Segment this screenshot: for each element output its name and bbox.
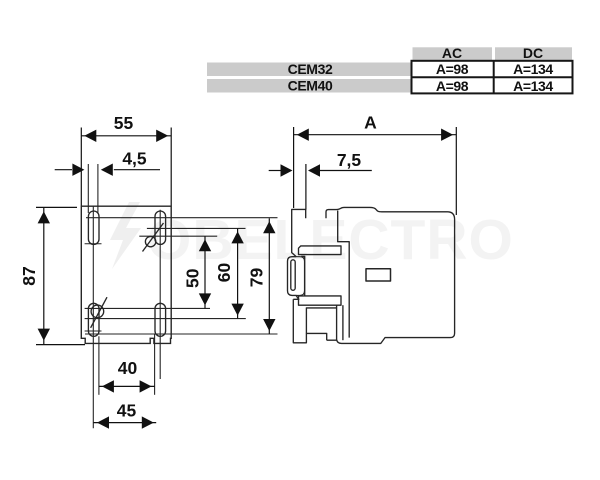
svg-text:60: 60: [214, 263, 234, 283]
side mounting strip foot: [293, 299, 326, 343]
svg-text:DC: DC: [523, 45, 543, 61]
svg-text:A=98: A=98: [436, 78, 469, 94]
side front block edge: [338, 211, 350, 338]
svg-text:A=134: A=134: [513, 61, 553, 77]
table row band CEM40: [207, 79, 412, 93]
side bottom lug: [299, 296, 342, 305]
dimension 55: [81, 128, 171, 206]
side web between lugs left: [301, 256, 305, 296]
svg-text:CEM40: CEM40: [288, 77, 333, 93]
svg-text:A: A: [364, 113, 377, 133]
keyhole slash bottom-left: [91, 297, 107, 328]
centerline through left slots / 45-dim extension: [92, 207, 94, 429]
dimension 4,5: [55, 164, 160, 176]
slot top-right: [155, 211, 166, 244]
keyhole circle top-right: [145, 236, 155, 246]
slot top-left: [88, 211, 99, 244]
svg-text:79: 79: [247, 268, 267, 288]
dimension 40: [99, 380, 155, 392]
dimension 50: [199, 236, 211, 308]
svg-text:AC: AC: [442, 45, 462, 61]
dimension A: [294, 127, 457, 215]
slot top-left bottom tangent bar: [85, 243, 102, 245]
table header cell AC: [413, 47, 493, 60]
table border grid: [412, 61, 573, 94]
label window: [366, 269, 391, 281]
plate inner bottom edge / 79 bottom extension line: [85, 333, 278, 335]
dimension 45: [94, 416, 157, 428]
extension line 79 top: [86, 217, 278, 219]
side verticals below bottom lug: [336, 305, 338, 340]
keyhole circle bottom-left: [91, 305, 104, 318]
extension line 40 left: [98, 336, 100, 395]
mounting plate outline: [81, 206, 171, 343]
slot bottom-left tangent bar: [85, 330, 102, 332]
table header cell DC: [495, 47, 572, 60]
side mounting strip top: [292, 209, 306, 256]
extension line 40/45 right: [154, 334, 156, 395]
svg-text:40: 40: [118, 358, 138, 378]
svg-text:87: 87: [19, 266, 39, 285]
dimension 7,5: [269, 164, 372, 210]
svg-text:7,5: 7,5: [337, 150, 362, 170]
side top lug: [299, 246, 342, 255]
svg-text:45: 45: [117, 401, 137, 421]
svg-text:A=134: A=134: [513, 78, 553, 94]
svg-text:4,5: 4,5: [122, 148, 147, 168]
slot bottom-left: [88, 303, 99, 336]
extension line 60 top: [147, 227, 246, 229]
extension line 50 top: [139, 235, 217, 237]
dimension 87: [36, 207, 85, 344]
dimension 79: [263, 218, 275, 334]
side body outline: [326, 207, 455, 343]
table row band CEM32: [207, 63, 412, 77]
extension line 50 bottom: [85, 307, 210, 309]
extension line 4,5 right: [97, 164, 99, 213]
extension line 60 bottom: [85, 318, 246, 320]
din clip outer: [288, 257, 299, 300]
din clip right edge: [296, 257, 305, 296]
svg-text:55: 55: [114, 113, 134, 133]
watermark: [110, 202, 514, 272]
extension line 4,5 left: [87, 164, 89, 213]
keyhole slash top-right: [143, 223, 164, 252]
din clip inner groove: [291, 260, 295, 291]
svg-text:A=98: A=98: [436, 61, 469, 77]
svg-text:CEM32: CEM32: [288, 61, 333, 77]
centerline through right slots: [159, 210, 161, 379]
svg-text:50: 50: [183, 268, 203, 288]
side strip foot notch: [306, 308, 336, 334]
dimension 60: [231, 228, 243, 318]
slot bottom-right: [155, 303, 166, 336]
